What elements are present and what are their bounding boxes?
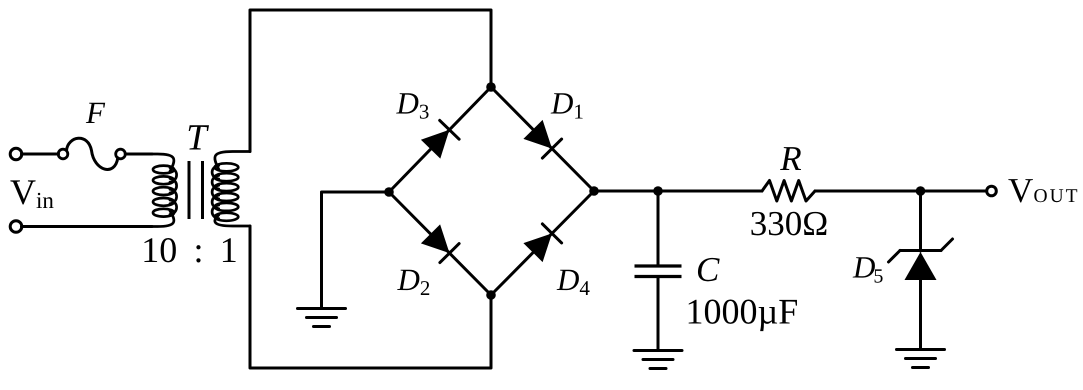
- svg-text:OUT: OUT: [1034, 186, 1080, 207]
- transformer T primary winding: [152, 154, 177, 227]
- svg-text:F: F: [85, 95, 106, 130]
- terminal Vin bottom: [10, 221, 22, 233]
- transformer T secondary winding: [212, 152, 250, 227]
- node bridge top: [486, 82, 496, 92]
- node bridge right: [589, 186, 599, 196]
- diode D3: [421, 120, 459, 158]
- node bridge left: [384, 187, 394, 197]
- diode D1: [523, 120, 561, 158]
- resistor R: [762, 181, 815, 202]
- ground at capacitor: [634, 340, 682, 369]
- diode D4: [523, 224, 561, 262]
- capacitor C: [635, 191, 682, 351]
- svg-text:T: T: [186, 118, 209, 159]
- svg-text:10 : 1: 10 : 1: [141, 230, 237, 270]
- wire fuse to transformer primary: [125, 153, 152, 156]
- svg-text:C: C: [696, 250, 720, 289]
- ground at zener: [897, 340, 945, 368]
- terminal Vin top: [10, 148, 22, 160]
- wire Vin top to fuse: [22, 153, 59, 156]
- svg-text:D3: D3: [396, 86, 430, 124]
- svg-text:D1: D1: [550, 86, 584, 124]
- label Vout: [1008, 171, 1080, 210]
- svg-text:D5: D5: [852, 250, 883, 288]
- svg-text:R: R: [779, 139, 801, 178]
- fuse F: [58, 138, 125, 169]
- svg-text:330Ω: 330Ω: [750, 204, 829, 243]
- svg-text:D4: D4: [556, 262, 590, 300]
- wire bridge left node to ground: [322, 192, 390, 309]
- bridge diamond wires: [389, 87, 594, 295]
- svg-text:Vin: Vin: [10, 172, 54, 213]
- wire bridge right node to resistor: [594, 190, 762, 193]
- node bridge bottom: [486, 290, 496, 300]
- wire Vin bottom to transformer primary: [22, 225, 153, 228]
- svg-text:V: V: [1008, 171, 1033, 210]
- diode D2: [421, 224, 459, 262]
- zener diode D5: [889, 191, 953, 350]
- wire resistor to output terminal: [815, 190, 987, 193]
- node zener junction: [916, 186, 926, 196]
- svg-text:1000µF: 1000µF: [686, 292, 799, 332]
- svg-text:D2: D2: [397, 262, 431, 300]
- ground at bridge: [298, 292, 346, 327]
- wire secondary top to bridge top node: [250, 10, 491, 152]
- node capacitor junction: [653, 186, 663, 196]
- wire secondary bottom to bridge bottom node: [250, 226, 491, 368]
- terminal Vout: [987, 186, 997, 196]
- transformer T core: [189, 161, 203, 219]
